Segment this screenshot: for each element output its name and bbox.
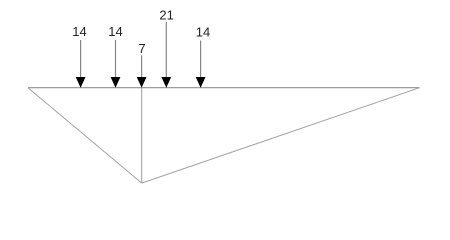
label 14 (F1) — [72, 24, 86, 39]
svg-text:7: 7 — [138, 41, 145, 56]
right diagonal of shear diagram — [142, 88, 420, 183]
svg-text:14: 14 — [196, 24, 210, 39]
vertical drop line at apex — [141, 88, 143, 183]
load arrow F1 (14) — [76, 40, 86, 88]
left diagonal of shear diagram — [28, 88, 142, 183]
svg-text:14: 14 — [108, 24, 122, 39]
label 21 (F4) — [159, 8, 173, 23]
svg-text:21: 21 — [159, 8, 173, 23]
load arrow F5 (14) — [196, 41, 206, 88]
load arrow F3 (7) — [137, 55, 147, 87]
label 14 (F5) — [196, 24, 210, 39]
load arrow F2 (14) — [111, 40, 121, 88]
label 14 (F2) — [108, 24, 122, 39]
svg-text:14: 14 — [72, 24, 86, 39]
label 7 (F3) — [138, 41, 145, 56]
load arrow F4 (21) — [161, 22, 171, 88]
beam axis line — [28, 87, 420, 89]
